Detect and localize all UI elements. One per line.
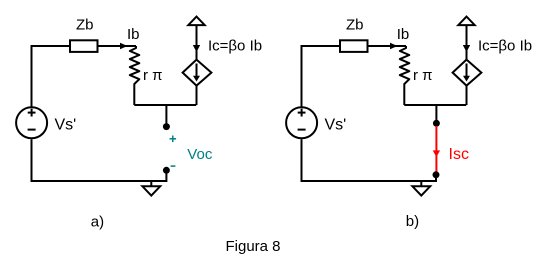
wire: a Zb to r pi: [98, 45, 137, 47]
wire: a source bottom to rail: [196, 86, 198, 105]
node: b Isc bottom: [433, 171, 440, 178]
svg-text:b): b): [406, 213, 419, 230]
svg-text:Zb: Zb: [346, 17, 364, 34]
svg-text:Voc: Voc: [187, 146, 213, 163]
svg-text:Ic=βo Ib: Ic=βo Ib: [208, 37, 262, 54]
ground (b): [420, 181, 422, 186]
arrow inside source (a): [196, 64, 198, 77]
dependent current source (a) diamond: [183, 60, 212, 86]
wire: b source to ground rail: [302, 139, 437, 181]
wire: b left/top loop: [302, 46, 341, 107]
node: a Voc plus terminal: [163, 123, 170, 130]
terminal triangle (b): [458, 17, 474, 26]
wire: b Zb to r pi: [368, 45, 407, 47]
wire: a terminal to dependent source: [196, 25, 198, 59]
svg-text:r π: r π: [413, 67, 433, 84]
dependent current source (b) diamond: [453, 60, 482, 86]
wire: a stub to Voc plus node: [165, 105, 167, 124]
svg-text:Ic=βo Ib: Ic=βo Ib: [478, 37, 532, 54]
wire: b source bottom to rail: [466, 86, 468, 105]
resistor r pi (b) zigzag: [400, 46, 410, 105]
voltage source Vs' (b): [286, 107, 317, 138]
label plus (a, teal): [170, 136, 177, 143]
svg-text:Figura 8: Figura 8: [226, 238, 281, 255]
current arrow Ic (a): [193, 45, 200, 52]
wire: b stub to Isc node: [435, 105, 437, 120]
wire: a source to ground rail: [32, 139, 167, 181]
wire: b terminal to dependent source: [466, 25, 468, 59]
svg-text:Vs': Vs': [325, 116, 347, 133]
current arrow Ic (b): [463, 45, 470, 52]
current arrow Isc (red): [433, 150, 440, 157]
wire: a mid horizontal rail: [134, 104, 196, 106]
svg-text:r π: r π: [143, 67, 163, 84]
short-circuit wire Isc (red): [435, 126, 437, 172]
voltage source Vs' (a): [16, 107, 47, 138]
current arrow Ib (a): [120, 43, 128, 50]
arrow inside source (b): [466, 64, 468, 77]
resistor r pi (a) zigzag: [130, 46, 140, 105]
wire: a left/top loop: [32, 46, 71, 107]
terminal triangle (a): [188, 17, 204, 26]
svg-text:Zb: Zb: [76, 17, 94, 34]
svg-text:Isc: Isc: [449, 146, 469, 163]
svg-text:Ib: Ib: [397, 26, 410, 43]
current arrow Ib (b): [390, 43, 398, 50]
resistor Zb (b): [340, 40, 368, 52]
svg-text:a): a): [91, 214, 104, 231]
ground (a): [150, 181, 152, 186]
resistor Zb (a): [70, 40, 98, 52]
label minus (a, teal): [171, 165, 176, 167]
svg-text:Ib: Ib: [127, 26, 140, 43]
wire: b mid horizontal rail: [404, 104, 466, 106]
node: b Isc top: [433, 120, 440, 127]
svg-text:Vs': Vs': [55, 116, 77, 133]
node: a Voc minus terminal: [163, 167, 170, 174]
